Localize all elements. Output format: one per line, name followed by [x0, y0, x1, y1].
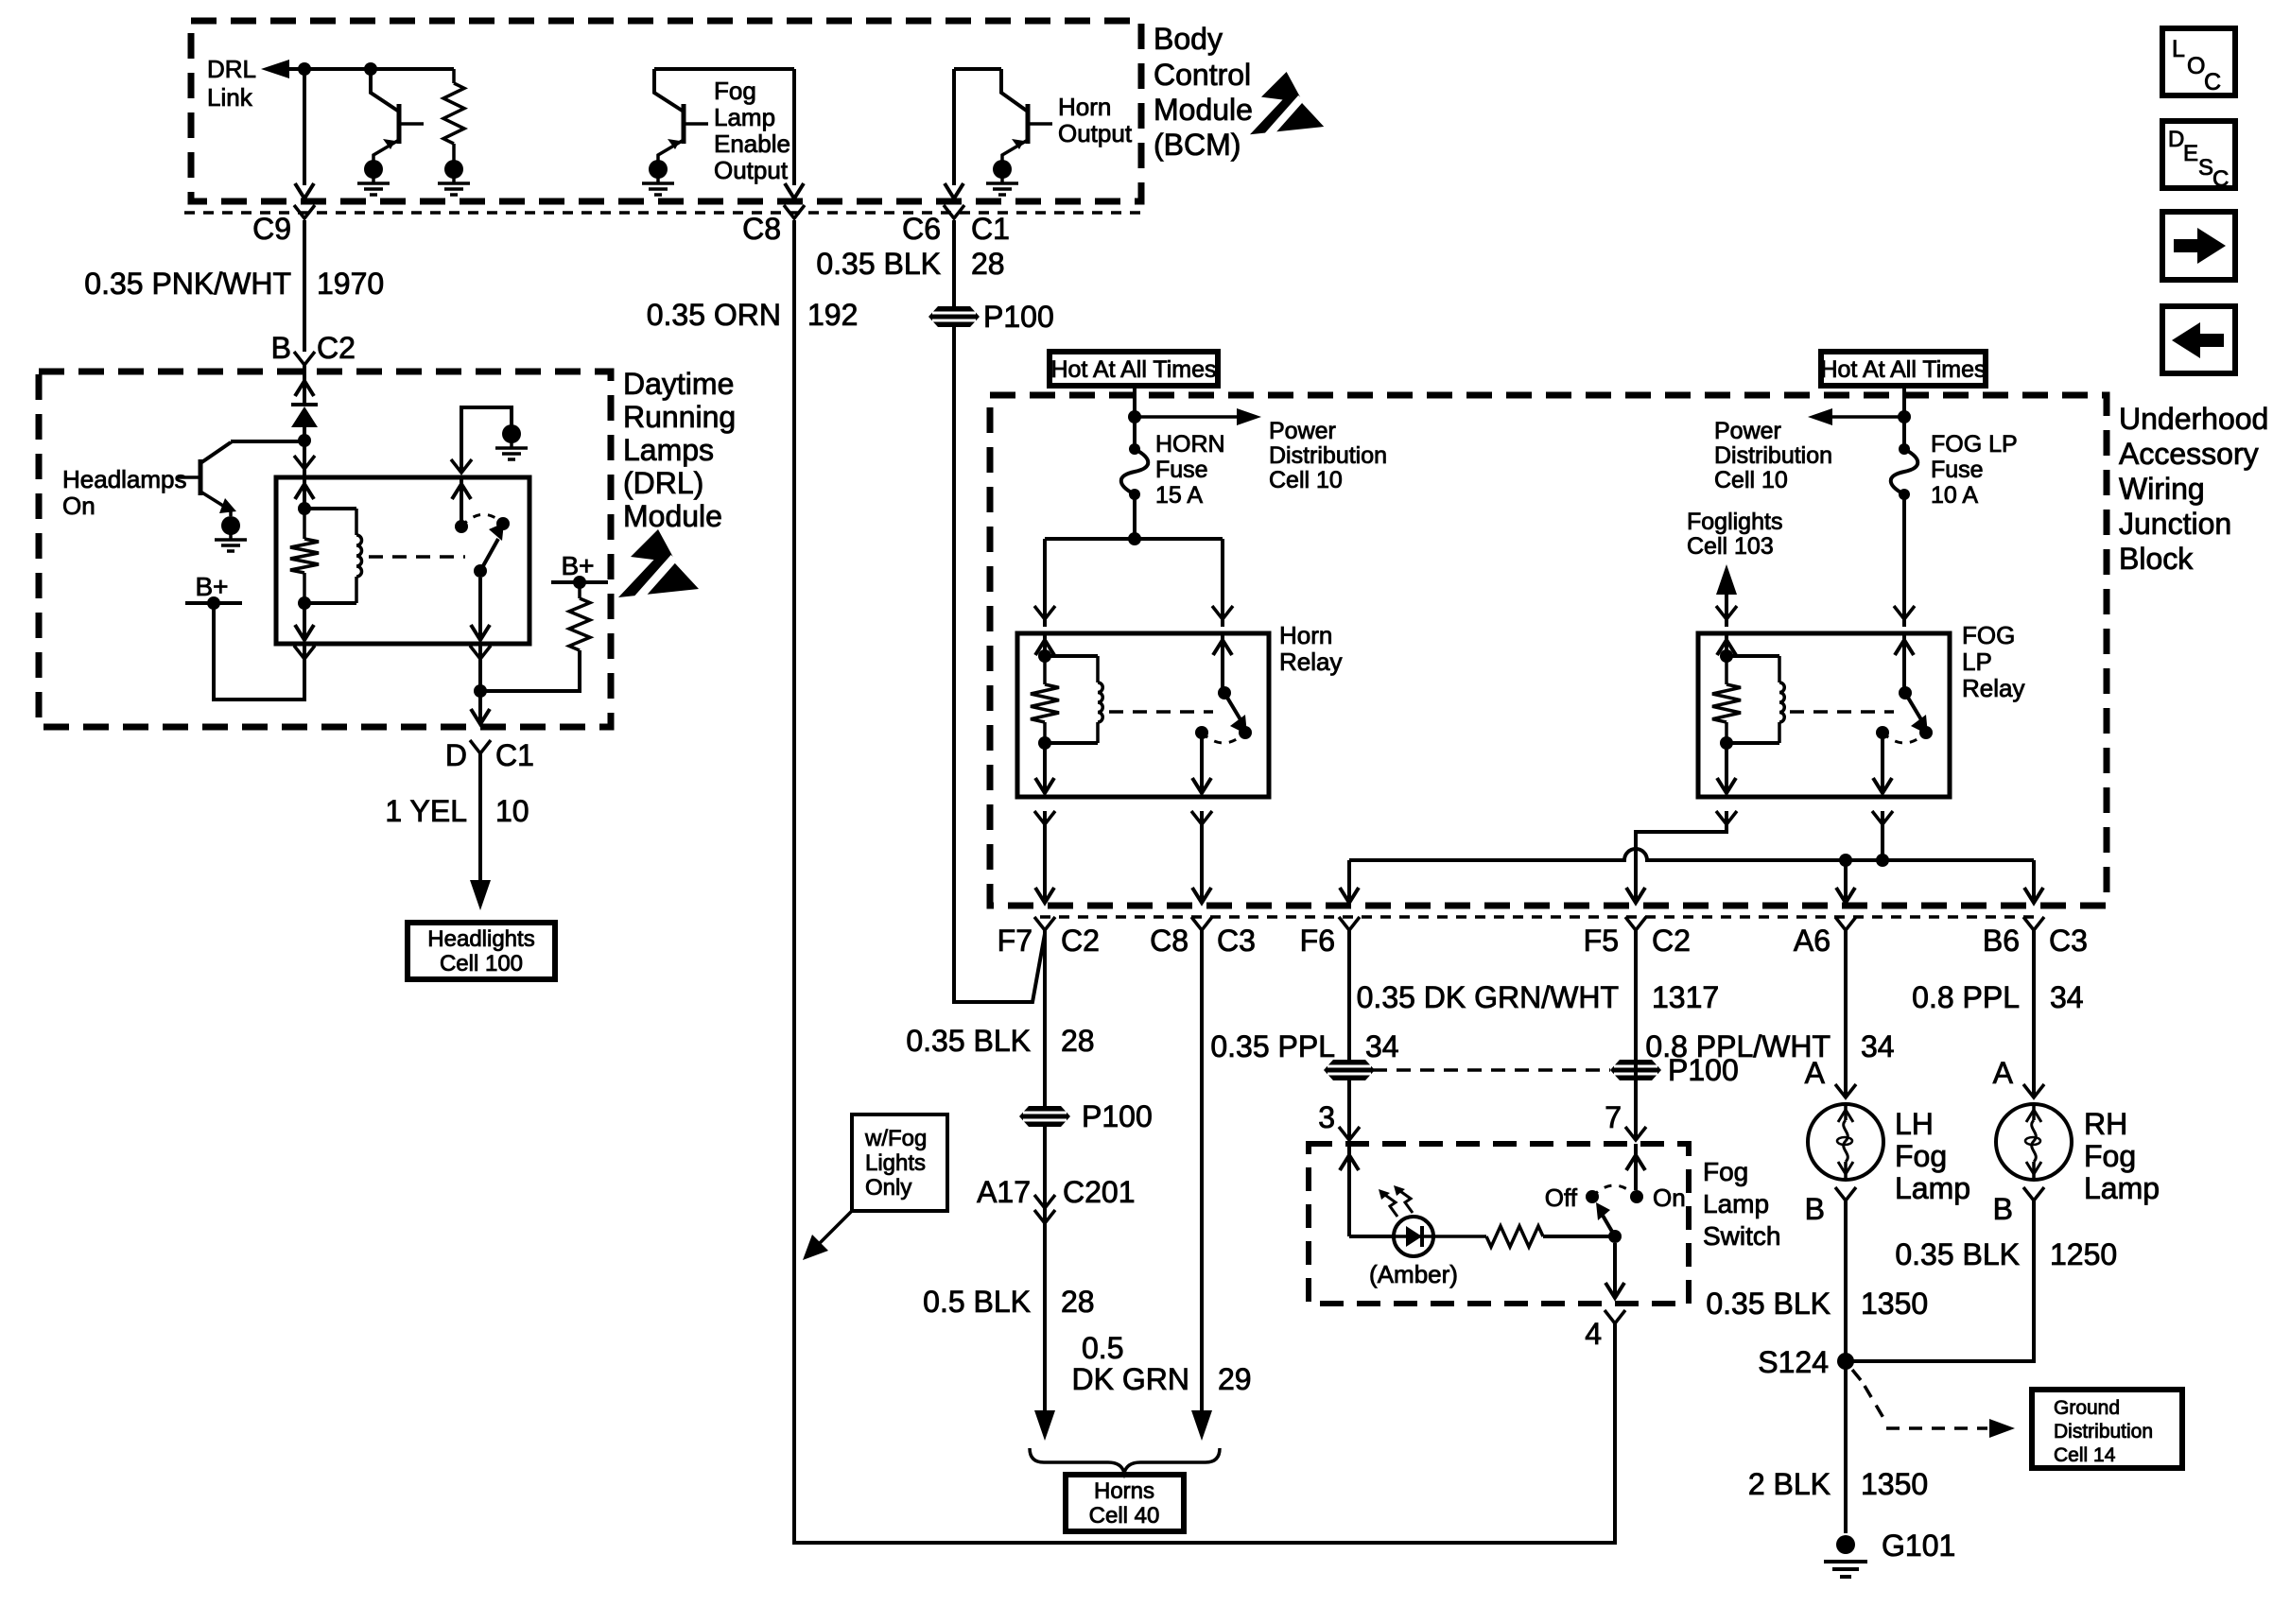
wire - 0.8 PPL/WHT 34 from A6 to LH lamp	[1844, 930, 1848, 1097]
fuse - FOG LP Fuse 10 A	[1899, 443, 1910, 455]
svg-text:Only: Only	[865, 1175, 911, 1201]
dashed actuation link K3	[1790, 710, 1894, 714]
wire - 0.35 BLK 1350 LH lamp to S124	[1844, 1201, 1848, 1361]
svg-text:(DRL): (DRL)	[623, 466, 703, 500]
svg-text:0.35 BLK: 0.35 BLK	[906, 1024, 1031, 1058]
svg-text:C2: C2	[1061, 924, 1100, 958]
label - Fog Lamp Switch	[1703, 1157, 1780, 1251]
svg-text:Cell 103: Cell 103	[1687, 533, 1774, 560]
arrow - foglights feedback up	[1716, 564, 1737, 627]
pin B label (RH)	[1993, 1187, 2044, 1226]
contact - On	[1630, 1183, 1686, 1212]
label - 0.5 BLK 28	[923, 1285, 1094, 1319]
svg-text:B6: B6	[1983, 924, 2020, 958]
label - 0.35 BLK 28 (F7 wire)	[906, 1024, 1094, 1058]
diode D1 (DRL module)	[291, 405, 318, 441]
label - 1 YEL 10	[385, 794, 529, 828]
svg-text:Junction: Junction	[2119, 507, 2231, 541]
svg-text:A: A	[1993, 1056, 2014, 1090]
label - FOG LP Fuse 10 A	[1931, 431, 2018, 509]
node - S junction with R3	[474, 684, 487, 698]
node - K3 coil bottom	[1720, 736, 1733, 750]
svg-text:0.35 ORN: 0.35 ORN	[647, 298, 781, 332]
svg-text:0.35 DK GRN/WHT: 0.35 DK GRN/WHT	[1357, 980, 1619, 1014]
svg-text:0.5: 0.5	[1082, 1331, 1123, 1365]
inductor L2 (K2 relay coil)	[1045, 656, 1102, 743]
svg-text:A6: A6	[1794, 924, 1831, 958]
connector C9	[252, 205, 315, 246]
svg-text:Fog: Fog	[2084, 1139, 2136, 1173]
svg-text:0.35 PPL: 0.35 PPL	[1210, 1029, 1335, 1063]
splice S124	[1758, 1345, 1854, 1379]
wire - horn output to C6	[952, 69, 956, 185]
dashed actuation link K1	[369, 555, 465, 559]
ESD caution symbol (BCM)	[1250, 72, 1324, 136]
Body Control Module (BCM) dashed enclosure	[191, 21, 1141, 201]
svg-text:Headlights: Headlights	[427, 926, 534, 952]
pin B label (LH)	[1805, 1187, 1856, 1226]
fog switch armature	[1596, 1202, 1615, 1236]
svg-text:Module: Module	[1154, 93, 1253, 127]
svg-text:G101: G101	[1882, 1529, 1955, 1563]
Ground Distribution Cell 14 reference box	[2032, 1390, 2182, 1468]
brace - horns group	[1030, 1448, 1220, 1473]
svg-text:Lamp: Lamp	[2084, 1171, 2160, 1205]
svg-text:1317: 1317	[1652, 980, 1719, 1014]
svg-text:3: 3	[1318, 1100, 1335, 1134]
arrow to Power Distribution (right)	[1135, 408, 1261, 425]
svg-text:Underhood: Underhood	[2119, 402, 2268, 436]
wire - 0.35 BLK 28 from C6 down to junction block F7	[954, 220, 1045, 1002]
arrow - horn wire 1 to Horns cell	[1034, 1410, 1055, 1441]
label - LH Fog Lamp	[1895, 1107, 1970, 1205]
svg-text:C3: C3	[1217, 924, 1256, 958]
svg-text:34: 34	[2050, 980, 2084, 1014]
label - Power Distribution Cell 10 (right)	[1714, 418, 1832, 493]
Daytime Running Lamps (DRL) Module dashed enclosure	[39, 371, 611, 727]
svg-text:S124: S124	[1758, 1345, 1829, 1379]
svg-text:7: 7	[1605, 1100, 1622, 1134]
wire - 0.35 BLK 1250 RH lamp to S124	[1846, 1201, 2034, 1361]
transistor Q4 (Headlamps On driver)	[178, 441, 304, 516]
svg-text:192: 192	[807, 298, 858, 332]
node - bus to A6	[1839, 854, 1852, 867]
connector P100 (F7 wire)	[1019, 1099, 1153, 1133]
svg-text:Lamps: Lamps	[623, 433, 714, 467]
svg-text:Block: Block	[2119, 542, 2194, 576]
Hot At All Times box (right)	[1820, 352, 1986, 386]
svg-text:L: L	[2172, 36, 2185, 62]
wire - pin 7 to On contact	[1626, 1144, 1645, 1190]
Fog Lamp Switch dashed enclosure	[1309, 1144, 1689, 1304]
connector F5 / C2	[1584, 917, 1691, 958]
svg-text:Output: Output	[714, 156, 789, 184]
wire - K2 output to C8 of junction block	[1191, 733, 1212, 903]
dashed actuation link K2	[1109, 710, 1213, 714]
label - 2 BLK 1350	[1748, 1467, 1928, 1501]
wire - K2 coil return to F7	[1034, 743, 1055, 903]
RH Fog Lamp	[1996, 1104, 2072, 1180]
node - K2 coil top	[1038, 649, 1051, 663]
DRL module title text	[623, 367, 736, 533]
relay K2 box (Horn Relay)	[1017, 633, 1269, 797]
pin A label (RH)	[1993, 1056, 2044, 1097]
svg-text:S: S	[2198, 155, 2213, 181]
svg-text:0.35 BLK: 0.35 BLK	[1895, 1237, 2020, 1271]
resistor R3 (DRL feedback)	[480, 582, 590, 691]
svg-text:C6: C6	[902, 212, 941, 246]
resistor R6 (LED dropping)	[1432, 1226, 1615, 1247]
svg-text:D: D	[2168, 127, 2184, 152]
label - 0.8 PPL 34	[1912, 980, 2083, 1014]
wire - 0.5 DK GRN 29 below C8/C3	[1200, 930, 1204, 1412]
label - Horn Relay	[1279, 621, 1342, 676]
svg-text:0.35 PNK/WHT: 0.35 PNK/WHT	[84, 267, 291, 301]
Underhood junction block title	[2119, 402, 2268, 576]
label - Power Distribution Cell 10 (left)	[1269, 418, 1387, 493]
svg-text:C3: C3	[2049, 924, 2088, 958]
svg-text:Body: Body	[1154, 22, 1223, 56]
svg-text:Foglights: Foglights	[1687, 509, 1782, 535]
svg-text:15 A: 15 A	[1155, 482, 1203, 509]
arrow to Headlights cell	[470, 880, 491, 910]
svg-text:HORN: HORN	[1155, 431, 1225, 458]
label - HORN Fuse 15 A	[1155, 431, 1225, 509]
connector C6 / C1	[902, 205, 1010, 246]
label - RH Fog Lamp	[2084, 1107, 2160, 1205]
wire - 0.8 PPL 34 from B6 to RH lamp	[2032, 930, 2036, 1097]
svg-text:B: B	[1805, 1192, 1825, 1226]
svg-text:C: C	[2204, 69, 2221, 95]
wire - DRL link to connector C9	[303, 69, 306, 185]
svg-text:B: B	[271, 331, 291, 365]
label - Fog Lamp Enable Output	[714, 77, 790, 184]
arrow - horn wire 2 to Horns cell	[1191, 1410, 1212, 1441]
Hot At All Times box (left)	[1050, 352, 1218, 386]
relay K3 coil input arrow	[1717, 633, 1736, 656]
svg-text:DRL: DRL	[207, 55, 256, 83]
ESD caution symbol (DRL)	[618, 529, 699, 599]
wire - 0.35 PPL 34 from F6 to switch pin 3	[1347, 930, 1351, 1140]
svg-text:(Amber): (Amber)	[1369, 1260, 1458, 1288]
DESC icon box	[2162, 121, 2235, 192]
svg-text:F6: F6	[1300, 924, 1335, 958]
svg-text:Control: Control	[1154, 58, 1251, 92]
connector F6	[1300, 917, 1360, 958]
svg-text:1350: 1350	[1861, 1467, 1928, 1501]
svg-text:A: A	[1805, 1056, 1826, 1090]
connector D / C1	[445, 738, 534, 772]
svg-text:1350: 1350	[1861, 1287, 1928, 1321]
connector A17 / C201	[977, 1175, 1135, 1223]
transistor Q2 (fog lamp enable driver)	[642, 69, 794, 195]
svg-text:FOG LP: FOG LP	[1931, 431, 2018, 458]
wire - K1 switch upper contact to ground	[451, 407, 512, 527]
svg-text:Hot At All Times: Hot At All Times	[1050, 356, 1216, 383]
wire - coil bottom to module pin	[295, 603, 314, 640]
relay K1 coil-side wire with up arrow	[295, 477, 314, 509]
terminal B+ (left)	[185, 572, 242, 610]
svg-text:Fog: Fog	[1703, 1157, 1748, 1186]
transistor Q1 (DRL link driver)	[357, 69, 424, 195]
svg-text:Ground: Ground	[2054, 1397, 2120, 1419]
label - 0.35 ORN 192	[647, 298, 859, 332]
svg-text:C8: C8	[1150, 924, 1189, 958]
svg-text:D: D	[445, 738, 467, 772]
svg-text:Output: Output	[1058, 119, 1133, 147]
wire - 0.35 DK GRN/WHT 1317 from F5 to switch pin 7	[1634, 930, 1638, 1140]
svg-text:1970: 1970	[317, 267, 384, 301]
svg-text:Cell 100: Cell 100	[440, 951, 523, 976]
BCM title text	[1154, 22, 1253, 162]
svg-text:1250: 1250	[2050, 1237, 2117, 1271]
dashed reference to Ground Distribution	[1852, 1370, 2015, 1438]
svg-text:FOG: FOG	[1962, 621, 2015, 649]
svg-text:Relay: Relay	[1962, 674, 2024, 702]
wire - common to pin 4	[1605, 1243, 1625, 1323]
svg-text:Wiring: Wiring	[2119, 472, 2205, 506]
wire - fuse to fog relay switch	[1894, 494, 1915, 627]
svg-text:28: 28	[971, 247, 1005, 281]
svg-text:0.8 PPL/WHT: 0.8 PPL/WHT	[1645, 1029, 1831, 1063]
label - Foglights Cell 103	[1687, 509, 1782, 560]
label - 0.8 PPL/WHT 34	[1645, 1029, 1894, 1063]
svg-text:Link: Link	[207, 83, 253, 112]
svg-text:Distribution: Distribution	[1714, 442, 1832, 469]
node - junction of DRL link and C9 wire	[298, 62, 311, 76]
relay K1 switch	[455, 514, 510, 578]
svg-text:C1: C1	[495, 738, 534, 772]
junction block connector face dotted line	[1040, 915, 2042, 919]
connector P100 (F5 wire)	[1610, 1053, 1739, 1087]
svg-text:Off: Off	[1545, 1183, 1578, 1212]
svg-text:Cell 14: Cell 14	[2054, 1444, 2116, 1466]
svg-text:Lamp: Lamp	[714, 103, 775, 131]
svg-text:Switch: Switch	[1703, 1221, 1780, 1251]
svg-text:Lamp: Lamp	[1895, 1171, 1970, 1205]
wire - fog output distribution bus	[1340, 849, 2043, 903]
ground - under Q4 emitter	[221, 516, 240, 535]
resistor R1 (pull-up in BCM)	[443, 69, 464, 161]
svg-text:C: C	[2212, 166, 2229, 192]
back arrow icon box	[2162, 306, 2235, 373]
svg-text:0.35 BLK: 0.35 BLK	[1706, 1287, 1831, 1321]
svg-text:4: 4	[1585, 1317, 1602, 1351]
terminal B+ (right)	[551, 551, 608, 589]
dashed link between P100 halves	[1373, 1068, 1610, 1072]
wire - DRL link bus inside BCM	[282, 67, 454, 71]
svg-text:w/Fog: w/Fog	[864, 1126, 927, 1151]
label - 0.35 BLK 1350	[1706, 1287, 1928, 1321]
svg-text:0.8 PPL: 0.8 PPL	[1912, 980, 2020, 1014]
svg-text:LH: LH	[1895, 1107, 1934, 1141]
svg-text:Horn: Horn	[1279, 621, 1332, 649]
label - Headlamps On	[62, 465, 187, 520]
svg-text:O: O	[2187, 53, 2205, 79]
wire - B/C2 into DRL with up arrow	[295, 365, 314, 403]
svg-text:Horn: Horn	[1058, 93, 1111, 121]
relay K2 coil input arrow	[1035, 633, 1054, 656]
relay K2 switch	[1195, 633, 1252, 743]
Underhood Accessory Wiring Junction Block dashed enclosure	[990, 395, 2107, 906]
svg-text:C201: C201	[1063, 1175, 1136, 1209]
Horns Cell 40 reference box	[1066, 1475, 1184, 1531]
wire - 2 BLK 1350 to G101	[1844, 1361, 1848, 1533]
w/Fog Lights Only note box	[803, 1114, 947, 1260]
arrow to Power Distribution (left)	[1808, 408, 1904, 425]
svg-text:(BCM): (BCM)	[1154, 128, 1241, 162]
node - horn feed junction	[1128, 410, 1141, 423]
inductor L3 (K3 relay coil)	[1726, 656, 1784, 743]
svg-text:Headlamps: Headlamps	[62, 465, 187, 493]
LH Fog Lamp	[1808, 1104, 1883, 1180]
svg-text:C2: C2	[317, 331, 356, 365]
connector C8 (BCM)	[742, 205, 805, 246]
Headlights Cell 100 reference box	[408, 923, 555, 979]
svg-text:2 BLK: 2 BLK	[1748, 1467, 1831, 1501]
svg-text:Accessory: Accessory	[2119, 437, 2259, 471]
connector F7 / C2	[998, 917, 1100, 958]
svg-text:LP: LP	[1962, 648, 1992, 676]
contact - Off	[1545, 1183, 1599, 1212]
node - K3 coil top	[1720, 649, 1733, 663]
wire - 0.35 ORN 192 from C8 down to fog lamp switch pin 4	[794, 220, 1615, 1543]
resistor R2 (K1 coil suppression)	[290, 509, 319, 603]
connector B / C2 into DRL module	[271, 331, 356, 365]
svg-text:Distribution: Distribution	[2054, 1421, 2153, 1443]
resistor R4 (K2 coil suppression)	[1031, 656, 1059, 743]
svg-text:F5: F5	[1584, 924, 1619, 958]
wire - K3 output down to distribution bus	[1872, 733, 1893, 860]
ground - DRL relay contact	[502, 424, 521, 443]
svg-text:C2: C2	[1652, 924, 1691, 958]
label - 0.35 BLK 28 (BCM horn wire)	[816, 247, 1004, 281]
svg-text:F7: F7	[998, 924, 1032, 958]
svg-text:Fog: Fog	[714, 77, 756, 105]
svg-text:DK GRN: DK GRN	[1072, 1362, 1189, 1396]
svg-text:A17: A17	[977, 1175, 1031, 1209]
wire - battery feed to HORN fuse	[1133, 386, 1136, 449]
node - coil top	[298, 502, 311, 515]
ground G101	[1824, 1529, 1955, 1577]
svg-text:C8: C8	[742, 212, 781, 246]
svg-text:On: On	[1653, 1183, 1686, 1212]
node - K2 coil bottom	[1038, 736, 1051, 750]
svg-text:1 YEL: 1 YEL	[385, 794, 467, 828]
wire - junction into relay coil	[294, 441, 315, 477]
node - fog feed junction	[1898, 410, 1911, 423]
svg-text:0.35 BLK: 0.35 BLK	[816, 247, 941, 281]
relay K3 box (FOG LP Relay)	[1698, 633, 1950, 797]
svg-text:10: 10	[495, 794, 529, 828]
svg-text:Fog: Fog	[1895, 1139, 1947, 1173]
svg-text:Fuse: Fuse	[1931, 457, 1984, 483]
svg-text:E: E	[2183, 141, 2198, 166]
pin 7 label and connector	[1605, 1100, 1646, 1140]
ground - under R1	[444, 160, 463, 179]
node - DRL collector junction	[298, 434, 311, 447]
fuse - HORN Fuse 15 A	[1129, 443, 1140, 455]
connector B6 / C3	[1983, 917, 2088, 958]
svg-text:Running: Running	[623, 400, 736, 434]
label - 0.35 PNK/WHT 1970	[84, 267, 384, 301]
svg-text:Daytime: Daytime	[623, 367, 734, 401]
dashed switch throw arc	[1592, 1185, 1637, 1197]
svg-text:Lights: Lights	[865, 1150, 926, 1176]
svg-text:0.5 BLK: 0.5 BLK	[923, 1285, 1031, 1319]
connector C8 / C3 (junction block)	[1150, 917, 1256, 958]
svg-text:Enable: Enable	[714, 130, 790, 158]
wire - fuse to horn relay split	[1034, 494, 1233, 627]
label - Horn Output	[1058, 93, 1133, 147]
svg-text:Cell 10: Cell 10	[1714, 467, 1788, 493]
svg-text:Distribution: Distribution	[1269, 442, 1387, 469]
svg-text:RH: RH	[2084, 1107, 2127, 1141]
svg-text:Module: Module	[623, 499, 722, 533]
wire - 0.35 PNK/WHT 1970 from C9 to DRL module	[303, 220, 306, 352]
svg-text:Cell 10: Cell 10	[1269, 467, 1343, 493]
svg-text:Fuse: Fuse	[1155, 457, 1208, 483]
connector P100 (F6 wire)	[1324, 1060, 1375, 1080]
DRL Link arrow and label	[207, 55, 289, 112]
relay K1 box (DRL relay)	[276, 477, 529, 644]
wire - fog lamp enable output to C8	[792, 69, 796, 185]
svg-text:29: 29	[1218, 1362, 1252, 1396]
svg-text:C9: C9	[252, 212, 291, 246]
svg-text:10 A: 10 A	[1931, 482, 1978, 509]
connector P100 (horn wire)	[928, 300, 1054, 334]
svg-text:B: B	[1993, 1192, 2013, 1226]
svg-text:28: 28	[1061, 1024, 1095, 1058]
label - 0.35 DK GRN/WHT 1317	[1357, 980, 1720, 1014]
inductor L1 (K1 relay coil)	[304, 509, 362, 603]
wire - 0.35 BLK 28 below F7	[1043, 930, 1047, 1412]
svg-text:Cell 40: Cell 40	[1089, 1503, 1160, 1529]
svg-text:34: 34	[1365, 1029, 1399, 1063]
label - 0.35 BLK 1250	[1895, 1237, 2117, 1271]
label - 0.5 DK GRN 29	[1072, 1331, 1252, 1396]
svg-text:Hot At All Times: Hot At All Times	[1820, 356, 1986, 383]
wire - K3 coil return toward F5	[1626, 743, 1737, 903]
LED indicator lamp (Amber)	[1394, 1217, 1433, 1256]
fog switch common node	[1608, 1230, 1622, 1243]
svg-text:Horns: Horns	[1094, 1478, 1154, 1504]
svg-text:Relay: Relay	[1279, 648, 1342, 676]
relay K3 switch	[1876, 633, 1933, 743]
BCM connector face dotted line	[184, 211, 1141, 215]
forward arrow icon box	[2162, 212, 2235, 280]
resistor R5 (K3 coil suppression)	[1712, 656, 1741, 743]
wire - B+ to K1 coil return	[214, 605, 315, 700]
transistor Q3 (horn output driver)	[954, 69, 1052, 195]
wire - pin 3 to indicator LED	[1340, 1144, 1395, 1236]
svg-text:34: 34	[1861, 1029, 1895, 1063]
LED emission arrows	[1379, 1185, 1413, 1217]
pin A label (LH)	[1805, 1056, 1856, 1097]
connector A6	[1794, 917, 1856, 958]
label - 0.35 PPL 34	[1210, 1029, 1398, 1063]
node - bus from K3	[1876, 854, 1889, 867]
node - junction of DRL link and Q1 collector	[364, 62, 377, 76]
LOC icon box	[2162, 28, 2235, 95]
node - coil bottom	[298, 596, 311, 610]
pin 3 label and connector	[1318, 1100, 1360, 1140]
svg-text:C1: C1	[971, 212, 1010, 246]
wire - 1 YEL 10 to headlights	[478, 753, 482, 880]
svg-text:Power: Power	[1269, 418, 1336, 444]
wire - battery feed to FOG LP fuse	[1902, 386, 1906, 449]
wire - K1 output down to D/C1	[470, 578, 491, 724]
